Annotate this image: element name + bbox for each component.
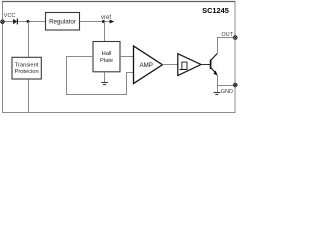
svg-text:Hall: Hall xyxy=(102,51,112,57)
svg-text:AMP: AMP xyxy=(140,62,153,69)
svg-text:Protecion: Protecion xyxy=(15,69,39,75)
svg-text:Transient: Transient xyxy=(15,62,39,68)
svg-text:vref: vref xyxy=(101,15,111,21)
svg-text:OUT: OUT xyxy=(221,32,233,38)
svg-text:Plate: Plate xyxy=(100,58,113,64)
svg-text:GND: GND xyxy=(221,89,233,95)
svg-text:VCC: VCC xyxy=(4,13,16,19)
svg-text:SC1245: SC1245 xyxy=(202,6,229,15)
svg-text:Regulator: Regulator xyxy=(49,19,76,26)
